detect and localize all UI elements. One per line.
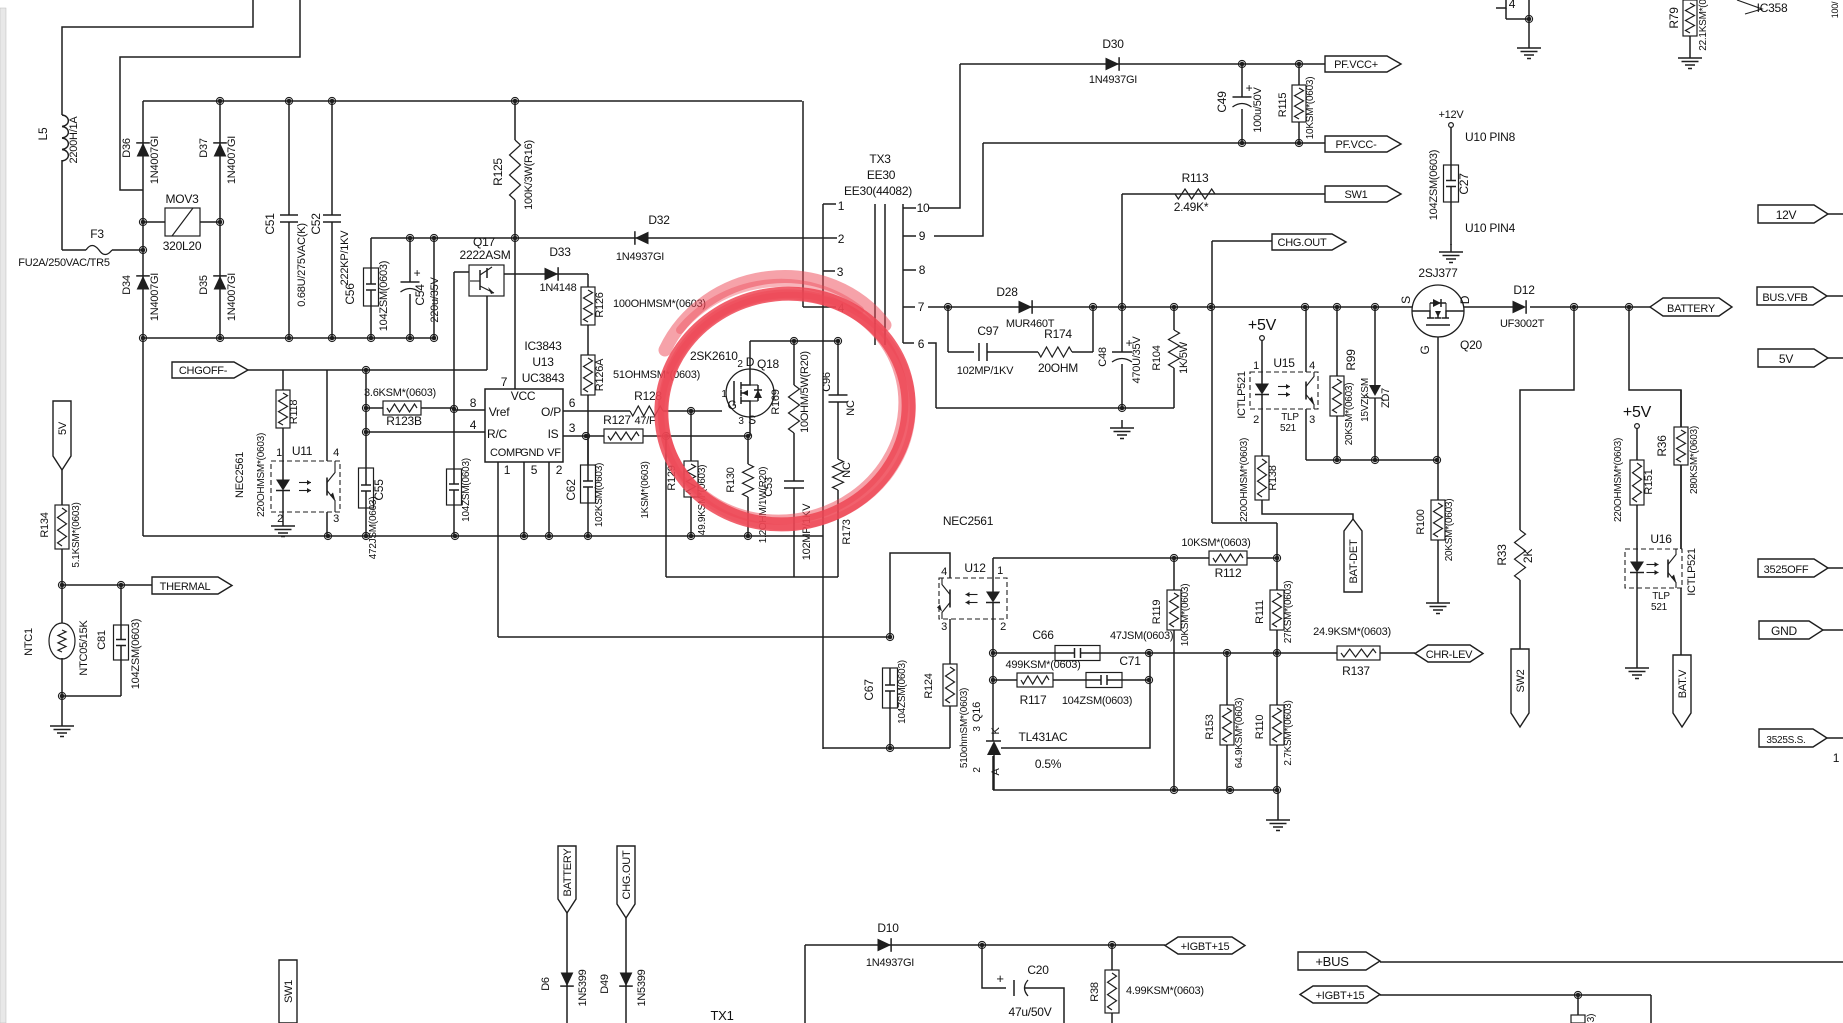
svg-text:C62: C62 — [564, 479, 578, 501]
svg-text:FU2A/250VAC/TR5: FU2A/250VAC/TR5 — [18, 257, 110, 269]
svg-text:D49: D49 — [599, 974, 611, 994]
svg-text:U15: U15 — [1273, 356, 1295, 370]
svg-text:+BUS: +BUS — [1315, 954, 1349, 969]
svg-text:R99: R99 — [1344, 349, 1358, 371]
svg-text:100/: 100/ — [1830, 1, 1840, 18]
svg-text:1: 1 — [1253, 360, 1259, 372]
svg-text:+5V: +5V — [1248, 317, 1277, 334]
svg-text:CHG.OUT: CHG.OUT — [1278, 237, 1328, 249]
svg-text:R124: R124 — [923, 673, 935, 698]
svg-text:1N4007GI: 1N4007GI — [226, 273, 238, 321]
svg-text:10KSM*(0603): 10KSM*(0603) — [1305, 77, 1316, 140]
svg-text:2K: 2K — [1521, 549, 1535, 563]
svg-text:R38: R38 — [1089, 982, 1101, 1002]
svg-text:C81: C81 — [96, 630, 108, 650]
svg-text:+: + — [414, 266, 421, 280]
svg-text:4: 4 — [470, 418, 477, 432]
svg-text:222KP/1KV: 222KP/1KV — [339, 230, 351, 286]
svg-text:VF: VF — [547, 447, 561, 459]
svg-text:Q17: Q17 — [473, 235, 496, 249]
svg-text:C66: C66 — [1032, 628, 1054, 642]
svg-text:R138: R138 — [1267, 465, 1279, 490]
svg-text:1KSM*(0603): 1KSM*(0603) — [640, 461, 651, 518]
svg-text:TX1: TX1 — [710, 1008, 733, 1023]
svg-text:3): 3) — [1586, 1014, 1597, 1022]
svg-text:R104: R104 — [1151, 345, 1163, 370]
svg-text:D12: D12 — [1513, 283, 1535, 297]
svg-text:1N4007GI: 1N4007GI — [149, 273, 161, 321]
svg-text:THERMAL: THERMAL — [160, 581, 211, 593]
svg-text:NC: NC — [845, 400, 857, 416]
svg-text:4: 4 — [333, 447, 339, 459]
svg-text:R110: R110 — [1254, 715, 1266, 740]
svg-text:TX3: TX3 — [869, 152, 891, 166]
svg-text:R127: R127 — [603, 413, 631, 427]
svg-text:3.6KSM*(0603): 3.6KSM*(0603) — [364, 387, 436, 399]
svg-text:8: 8 — [470, 396, 477, 410]
svg-text:4.99KSM*(0603): 4.99KSM*(0603) — [1126, 985, 1204, 997]
svg-text:2.49K*: 2.49K* — [1174, 200, 1209, 214]
svg-text:R173: R173 — [841, 519, 853, 544]
svg-text:R169: R169 — [770, 389, 782, 414]
svg-text:UF3002T: UF3002T — [1500, 318, 1545, 330]
svg-text:6: 6 — [918, 337, 925, 351]
svg-text:PF.VCC-: PF.VCC- — [1335, 139, 1377, 151]
svg-text:U10 PIN4: U10 PIN4 — [1465, 221, 1516, 235]
svg-text:1N4148: 1N4148 — [539, 282, 576, 294]
svg-text:2: 2 — [1000, 621, 1006, 633]
svg-text:10KSM*(0603): 10KSM*(0603) — [1181, 537, 1250, 549]
svg-text:TL431AC: TL431AC — [1019, 730, 1069, 744]
svg-text:0.68U/275VAC(K): 0.68U/275VAC(K) — [296, 223, 308, 306]
svg-text:R115: R115 — [1277, 93, 1289, 118]
svg-text:D33: D33 — [549, 245, 571, 259]
svg-text:BAT.V: BAT.V — [1677, 669, 1689, 698]
svg-text:220u/35V: 220u/35V — [429, 277, 441, 323]
svg-text:R174: R174 — [1044, 327, 1072, 341]
svg-text:R117: R117 — [1020, 693, 1047, 707]
svg-text:NTC05/15K: NTC05/15K — [78, 619, 90, 675]
svg-text:100u/50V: 100u/50V — [1252, 87, 1264, 133]
svg-text:D34: D34 — [121, 275, 133, 295]
svg-text:4: 4 — [941, 566, 947, 578]
svg-text:24.9KSM*(0603): 24.9KSM*(0603) — [1313, 626, 1391, 638]
svg-text:C52: C52 — [309, 213, 323, 235]
svg-text:A: A — [990, 768, 1002, 776]
svg-text:NTC1: NTC1 — [23, 628, 35, 656]
svg-text:3: 3 — [738, 416, 744, 427]
svg-text:2: 2 — [737, 359, 743, 370]
svg-text:R126: R126 — [594, 292, 606, 317]
svg-text:R130: R130 — [725, 467, 737, 492]
svg-text:10KSM*(0603): 10KSM*(0603) — [1180, 584, 1191, 647]
svg-text:100K/3W(R16): 100K/3W(R16) — [523, 140, 535, 210]
svg-text:220OHMSM*(0603): 220OHMSM*(0603) — [1613, 438, 1624, 522]
svg-text:499KSM*(0603): 499KSM*(0603) — [1005, 659, 1080, 671]
svg-text:U16: U16 — [1650, 532, 1672, 546]
svg-text:2: 2 — [838, 232, 845, 246]
svg-text:3: 3 — [569, 421, 576, 435]
svg-text:D28: D28 — [996, 285, 1018, 299]
svg-text:TLP: TLP — [1281, 412, 1299, 423]
svg-text:1: 1 — [838, 199, 845, 213]
svg-text:S: S — [1399, 296, 1413, 304]
svg-text:D6: D6 — [540, 977, 552, 991]
svg-text:C53: C53 — [763, 477, 775, 497]
svg-text:104ZSM(0603): 104ZSM(0603) — [1428, 150, 1440, 220]
svg-text:U11: U11 — [292, 444, 313, 458]
svg-text:2: 2 — [556, 463, 563, 477]
svg-text:3: 3 — [972, 726, 983, 732]
svg-text:102KSM(0603): 102KSM(0603) — [594, 463, 605, 527]
svg-text:L5: L5 — [36, 127, 50, 140]
svg-text:15VZKSM: 15VZKSM — [1360, 378, 1371, 422]
svg-text:F3: F3 — [90, 227, 104, 241]
svg-text:27KSM*(0603): 27KSM*(0603) — [1283, 581, 1294, 644]
svg-text:G: G — [1418, 345, 1432, 354]
svg-text:BATTERY: BATTERY — [562, 848, 574, 897]
svg-text:2: 2 — [277, 513, 283, 525]
svg-text:5: 5 — [531, 463, 538, 477]
svg-text:R134: R134 — [39, 512, 51, 537]
svg-text:1N4937GI: 1N4937GI — [1089, 74, 1137, 86]
svg-text:D37: D37 — [198, 138, 210, 158]
svg-text:D32: D32 — [648, 213, 670, 227]
svg-text:C49: C49 — [1215, 91, 1229, 113]
svg-text:20KSM*(0603): 20KSM*(0603) — [1344, 383, 1355, 446]
svg-text:22.1KSM*(0: 22.1KSM*(0 — [1698, 0, 1709, 51]
svg-text:C71: C71 — [1119, 654, 1141, 668]
svg-text:EE30(44082): EE30(44082) — [844, 184, 912, 198]
svg-text:D: D — [1458, 295, 1472, 304]
svg-text:10: 10 — [917, 201, 930, 215]
svg-text:R119: R119 — [1151, 600, 1163, 625]
svg-text:R112: R112 — [1215, 566, 1242, 580]
svg-text:1: 1 — [721, 389, 727, 400]
svg-text:GND: GND — [1771, 624, 1798, 638]
svg-text:BUS.VFB: BUS.VFB — [1762, 292, 1807, 304]
svg-text:O/P: O/P — [541, 405, 561, 419]
svg-text:R/C: R/C — [487, 427, 508, 441]
svg-text:3: 3 — [837, 265, 844, 279]
svg-text:4: 4 — [1509, 0, 1516, 11]
svg-text:PF.VCC+: PF.VCC+ — [1334, 59, 1378, 71]
svg-text:2222ASM: 2222ASM — [460, 248, 511, 262]
svg-text:G: G — [727, 398, 736, 412]
svg-text:7: 7 — [918, 300, 925, 314]
svg-text:+IGBT+15: +IGBT+15 — [1316, 990, 1365, 1002]
svg-text:12V: 12V — [1776, 208, 1797, 222]
svg-text:0.5%: 0.5% — [1035, 757, 1062, 771]
svg-text:BAT-DET: BAT-DET — [1348, 539, 1360, 583]
svg-text:C48: C48 — [1097, 347, 1109, 367]
svg-text:104ZSM(0603): 104ZSM(0603) — [461, 458, 472, 522]
svg-text:BATTERY: BATTERY — [1667, 303, 1716, 315]
svg-text:U13: U13 — [532, 355, 554, 369]
svg-text:1: 1 — [504, 463, 511, 477]
svg-text:521: 521 — [1280, 423, 1297, 434]
svg-text:D10: D10 — [877, 921, 899, 935]
svg-text:VCC: VCC — [511, 389, 536, 403]
svg-text:2.7KSM*(0603): 2.7KSM*(0603) — [1283, 700, 1294, 765]
svg-text:Q20: Q20 — [1460, 338, 1483, 352]
svg-text:220OHMSM*(0603): 220OHMSM*(0603) — [1239, 438, 1250, 522]
svg-text:NEC2561: NEC2561 — [943, 514, 994, 528]
svg-text:2: 2 — [972, 767, 983, 773]
svg-text:SW1: SW1 — [283, 980, 295, 1003]
svg-text:280KSM*(0603): 280KSM*(0603) — [1689, 426, 1700, 494]
svg-text:U10 PIN8: U10 PIN8 — [1465, 130, 1516, 144]
svg-text:3525S.S.: 3525S.S. — [1766, 735, 1805, 746]
svg-text:8: 8 — [919, 263, 926, 277]
svg-text:+12V: +12V — [1439, 109, 1465, 121]
svg-text:ICTLP521: ICTLP521 — [1236, 371, 1248, 419]
svg-text:10OHM/5W(R20): 10OHM/5W(R20) — [799, 351, 811, 433]
svg-text:CHR-LEV: CHR-LEV — [1426, 649, 1473, 661]
svg-text:R137: R137 — [1342, 664, 1370, 678]
svg-text:64.9KSM*(0603): 64.9KSM*(0603) — [1234, 698, 1245, 768]
svg-text:104ZSM(0603): 104ZSM(0603) — [897, 660, 908, 724]
svg-text:C67: C67 — [862, 679, 876, 701]
svg-text:521: 521 — [1651, 602, 1668, 613]
svg-text:SW2: SW2 — [1515, 669, 1527, 692]
svg-text:C56: C56 — [343, 283, 357, 305]
svg-text:1N4937GI: 1N4937GI — [866, 957, 914, 969]
svg-text:320L20: 320L20 — [163, 239, 202, 253]
svg-text:K: K — [990, 727, 1002, 735]
svg-text:1K/5W: 1K/5W — [1178, 341, 1190, 374]
svg-text:+: + — [996, 971, 1003, 986]
svg-text:1: 1 — [997, 565, 1003, 577]
svg-text:TLP: TLP — [1652, 591, 1670, 602]
svg-text:1: 1 — [1833, 751, 1840, 765]
svg-text:1N4937GI: 1N4937GI — [616, 251, 664, 263]
svg-text:47u/50V: 47u/50V — [1009, 1005, 1052, 1019]
svg-text:R113: R113 — [1182, 171, 1209, 185]
svg-text:C51: C51 — [263, 213, 277, 235]
svg-text:472JSM(0603): 472JSM(0603) — [368, 497, 379, 560]
svg-text:COMP: COMP — [490, 447, 522, 459]
svg-text:R118: R118 — [288, 400, 300, 425]
svg-text:UC3843: UC3843 — [522, 371, 565, 385]
svg-text:CHG.OUT: CHG.OUT — [621, 850, 633, 900]
svg-text:3: 3 — [333, 513, 339, 525]
svg-text:R79: R79 — [1667, 7, 1681, 29]
svg-text:R153: R153 — [1204, 714, 1216, 739]
svg-text:NC: NC — [841, 462, 853, 478]
svg-text:D30: D30 — [1102, 37, 1124, 51]
svg-text:+IGBT+15: +IGBT+15 — [1181, 941, 1230, 953]
svg-text:3: 3 — [941, 621, 947, 633]
svg-text:R111: R111 — [1254, 600, 1266, 624]
svg-text:C20: C20 — [1027, 963, 1049, 977]
svg-text:104ZSM(0603): 104ZSM(0603) — [378, 261, 390, 331]
svg-text:R33: R33 — [1495, 544, 1509, 566]
svg-text:D35: D35 — [198, 275, 210, 295]
svg-text:47/F: 47/F — [634, 415, 656, 427]
svg-text:1N5399: 1N5399 — [636, 969, 648, 1006]
svg-text:5.1KSM*(0603): 5.1KSM*(0603) — [71, 502, 82, 567]
svg-text:D36: D36 — [121, 138, 133, 158]
svg-text:Q16: Q16 — [971, 702, 983, 722]
svg-text:1N5399: 1N5399 — [577, 969, 589, 1006]
svg-text:IS: IS — [548, 427, 559, 441]
svg-text:1: 1 — [276, 447, 282, 459]
svg-text:5V: 5V — [1779, 352, 1793, 366]
svg-text:2SK2610: 2SK2610 — [690, 349, 738, 363]
svg-text:SW1: SW1 — [1344, 189, 1367, 201]
svg-text:20OHM: 20OHM — [1038, 361, 1078, 375]
svg-text:C27: C27 — [1457, 173, 1471, 195]
svg-text:7: 7 — [501, 375, 508, 389]
svg-text:R123B: R123B — [386, 414, 422, 428]
svg-text:20KSM*(0603): 20KSM*(0603) — [1444, 499, 1455, 562]
svg-text:IC3843: IC3843 — [524, 339, 562, 353]
svg-text:2200H/1A: 2200H/1A — [68, 116, 80, 164]
svg-text:Vref: Vref — [489, 405, 510, 419]
svg-text:470U/35V: 470U/35V — [1131, 336, 1143, 384]
svg-text:3: 3 — [1309, 414, 1315, 426]
svg-text:102MP/1KV: 102MP/1KV — [957, 365, 1014, 377]
svg-text:2SJ377: 2SJ377 — [1418, 266, 1458, 280]
svg-text:104ZSM(0603): 104ZSM(0603) — [130, 619, 142, 689]
svg-text:510ohmSM*(0603): 510ohmSM*(0603) — [959, 688, 970, 768]
svg-text:C97: C97 — [977, 324, 999, 338]
svg-text:IC358: IC358 — [1757, 1, 1788, 15]
svg-text:EE30: EE30 — [867, 168, 896, 182]
svg-text:MOV3: MOV3 — [165, 192, 199, 206]
svg-text:R100: R100 — [1415, 509, 1427, 534]
svg-text:1N4007GI: 1N4007GI — [149, 136, 161, 184]
svg-text:R126A: R126A — [594, 358, 606, 391]
svg-text:5V: 5V — [57, 421, 69, 435]
svg-text:Q18: Q18 — [757, 357, 780, 371]
svg-text:R151: R151 — [1643, 469, 1655, 494]
svg-text:6: 6 — [569, 396, 576, 410]
svg-text:ZD7: ZD7 — [1380, 388, 1392, 408]
svg-text:47JSM(0603): 47JSM(0603) — [1110, 630, 1173, 642]
svg-text:R125: R125 — [491, 158, 505, 186]
svg-text:220OHMSM*(0603): 220OHMSM*(0603) — [256, 433, 267, 517]
svg-text:4: 4 — [1309, 360, 1315, 372]
svg-text:+5V: +5V — [1623, 404, 1652, 421]
svg-text:3525OFF: 3525OFF — [1764, 564, 1809, 576]
svg-text:R36: R36 — [1655, 435, 1669, 457]
svg-text:ICTLP521: ICTLP521 — [1686, 548, 1698, 596]
svg-text:NEC2561: NEC2561 — [234, 452, 246, 498]
svg-text:CHGOFF-: CHGOFF- — [179, 365, 228, 377]
svg-text:2: 2 — [1253, 414, 1259, 426]
svg-text:1N4007GI: 1N4007GI — [226, 136, 238, 184]
svg-text:9: 9 — [919, 229, 926, 243]
svg-text:C54: C54 — [413, 284, 427, 306]
svg-text:GND: GND — [520, 447, 544, 459]
svg-text:U12: U12 — [964, 561, 986, 575]
svg-text:104ZSM(0603): 104ZSM(0603) — [1062, 695, 1132, 707]
svg-text:51OHMSM*(0603): 51OHMSM*(0603) — [613, 369, 700, 381]
